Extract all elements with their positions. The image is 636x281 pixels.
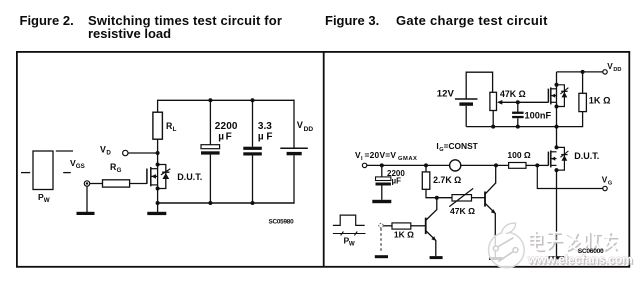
- 12V loop wires: [466, 72, 492, 126]
- bottom rail figure 3 top section: [466, 126, 582, 128]
- dot 100nF bottom: [516, 125, 520, 129]
- resistor 2.7K top wire: [425, 165, 427, 172]
- dot pot bottom: [491, 125, 495, 129]
- VG sense wire: [537, 165, 603, 188]
- resistor RL: [153, 112, 163, 139]
- svg-text:12V: 12V: [437, 88, 455, 99]
- label 2200 uF figure 3: [387, 169, 405, 185]
- variable resistor 47K box: [452, 195, 472, 201]
- drain node dot: [156, 163, 160, 167]
- watermark logo circle: [489, 223, 525, 268]
- capacitor 2200uF bottom plate: [201, 151, 220, 154]
- dot rail at 2200uF: [380, 163, 384, 167]
- svg-text:100 Ω: 100 Ω: [507, 150, 531, 160]
- svg-text:=CONST: =CONST: [444, 141, 479, 151]
- VI terminal: [362, 163, 366, 167]
- DUT diode slash: [560, 151, 568, 157]
- capacitor 2200uF branch top wire: [209, 100, 211, 144]
- ground below D.U.T. figure 2: [147, 212, 166, 215]
- battery VDD long plate: [280, 147, 308, 149]
- wire rail corner to RL top: [157, 100, 159, 112]
- svg-text:L: L: [173, 126, 177, 133]
- capacitor 3.3uF plates: [243, 147, 261, 156]
- VD label: [100, 144, 111, 156]
- label RL: [166, 121, 177, 133]
- resistor 1K top wire: [582, 72, 584, 93]
- upper MOSFET diode branch: [557, 85, 565, 107]
- svg-text:2.7K Ω: 2.7K Ω: [433, 175, 461, 185]
- Q1 collector: [485, 165, 496, 194]
- wire 1K to Q2 base: [411, 225, 426, 227]
- ground below 2200uF figure 3: [372, 200, 391, 203]
- VD terminal circle: [123, 150, 128, 155]
- label RG: [110, 162, 122, 174]
- dashed terminal circle: [379, 223, 383, 227]
- battery VDD bottom wire: [293, 155, 295, 203]
- battery 12V short plate: [459, 102, 473, 105]
- capacitor 3.3uF branch top wire: [252, 100, 254, 146]
- figure 3 title: [325, 13, 548, 28]
- label VDD figure 2: [297, 120, 314, 133]
- DUT source down wire: [556, 170, 558, 256]
- label VDD figure 3: [607, 62, 621, 73]
- label PW: [38, 192, 50, 204]
- battery 12V long plate: [455, 98, 478, 100]
- body diode slash: [161, 169, 170, 175]
- battery VDD short plate: [287, 152, 302, 155]
- current source IG circle: [450, 160, 461, 171]
- svg-text:W: W: [349, 240, 355, 247]
- resistor 100 ohm box: [509, 163, 526, 169]
- label PW figure 3: [344, 235, 355, 247]
- pot bottom wire: [492, 111, 494, 127]
- svg-text:Figure 2.: Figure 2.: [20, 13, 74, 28]
- wire RL bottom through MOSFET to ground: [157, 139, 159, 212]
- divider between figure 2 and figure 3: [323, 52, 325, 267]
- transistor Q2 base bar: [425, 218, 427, 235]
- svg-text:µ F: µ F: [258, 132, 273, 143]
- VG terminal: [603, 186, 607, 190]
- pulse symbol figure 3: [333, 215, 365, 225]
- svg-text:2200: 2200: [215, 121, 238, 132]
- svg-text:GMAX: GMAX: [398, 156, 417, 162]
- ground left of figure 2: [77, 186, 95, 215]
- svg-text:GS: GS: [76, 163, 85, 170]
- svg-text:Figure 3.: Figure 3.: [325, 13, 379, 28]
- main vertical upper MOSFET to DUT: [556, 72, 558, 147]
- svg-text:SC06000: SC06000: [578, 248, 604, 255]
- label VGS: [70, 158, 85, 170]
- capacitor 2200uF top plate: [201, 145, 220, 149]
- wire dashed terminal to 1K: [383, 225, 392, 227]
- node VD junction: [156, 151, 160, 155]
- battery VDD top wire: [293, 100, 295, 148]
- DUT source dot: [555, 168, 559, 172]
- body diode triangle: [162, 173, 169, 179]
- DUT diode triangle: [562, 155, 568, 160]
- svg-text:100nF: 100nF: [525, 110, 552, 120]
- Q2 collector: [426, 198, 437, 221]
- svg-text:47K Ω: 47K Ω: [450, 206, 475, 216]
- svg-text:µF: µF: [392, 176, 402, 185]
- upper MOSFET driver: [548, 87, 556, 104]
- dot main vertical at bottom rail: [555, 125, 559, 129]
- upper MOSFET source dot: [555, 105, 559, 109]
- dot wiper-100nF junction: [516, 100, 520, 104]
- bottom node dot: [156, 201, 160, 205]
- upper MOSFET drain dot: [555, 83, 559, 87]
- pulse width measure line: [333, 232, 366, 236]
- wire 47K to Q1 base: [472, 197, 486, 199]
- svg-text:D.U.T.: D.U.T.: [177, 172, 202, 182]
- svg-text:W: W: [44, 197, 50, 204]
- Q2 emitter arrow: [431, 236, 436, 241]
- source node dot: [156, 187, 160, 191]
- wire 100ohm to gate: [526, 164, 537, 166]
- upper MOSFET diode slash: [560, 88, 568, 94]
- body diode cathode bar: [162, 171, 169, 173]
- label VI=20V=VGMAX: [355, 150, 417, 162]
- transistor Q1 base bar: [484, 192, 486, 207]
- svg-text:D: D: [106, 149, 111, 156]
- D.U.T. MOSFET figure 3: [548, 150, 556, 167]
- top rail figure 2: [157, 99, 294, 101]
- dot rail at 2.7K: [424, 163, 428, 167]
- capacitor 3.3uF bottom wire: [252, 156, 254, 204]
- frame box around both figures: [17, 52, 629, 267]
- top rail figure 3: [557, 71, 604, 73]
- capacitor 2200uF figure 3 bottom plate: [376, 183, 391, 186]
- svg-text:SC05980: SC05980: [269, 219, 295, 226]
- label IG=CONST: [436, 141, 478, 153]
- Q1 emitter arrow: [491, 209, 496, 214]
- figure 2 title: [20, 13, 283, 41]
- label 2200 uF: [215, 121, 238, 143]
- svg-text:resistive load: resistive load: [88, 26, 171, 41]
- capacitor 100nF wires: [517, 102, 519, 126]
- upper MOSFET diode triangle: [562, 92, 568, 97]
- capacitor 2200uF figure 3 bottom wire: [381, 186, 383, 200]
- svg-text:Gate charge test circuit: Gate charge test circuit: [396, 13, 548, 28]
- top rail dot at 2200uF: [208, 98, 212, 102]
- rail IG to 100ohm: [461, 164, 509, 166]
- wire RG to gate: [130, 183, 147, 185]
- capacitor 2200uF figure 3 top wire: [381, 165, 383, 177]
- svg-text:3.3: 3.3: [258, 121, 272, 132]
- wiper wire to gate: [502, 101, 549, 103]
- dashed wire down: [380, 228, 382, 253]
- upper MOSFET body arrow: [551, 94, 555, 98]
- DUT diode cathode bar: [561, 154, 567, 156]
- variable resistor 47K slash: [449, 188, 473, 206]
- ground below DUT figure 3: [549, 256, 565, 259]
- input rail figure 3: [367, 164, 450, 166]
- svg-text:µF: µF: [218, 132, 233, 143]
- resistor 2.7K bottom wire: [426, 189, 452, 197]
- ground below Q1: [489, 257, 502, 260]
- MOSFET D.U.T. figure 2: [147, 167, 158, 186]
- svg-text:V: V: [607, 62, 613, 71]
- gate junction dot: [535, 163, 539, 167]
- bottom rail dot at 3.3uF: [251, 201, 255, 205]
- svg-text:47K Ω: 47K Ω: [500, 89, 526, 99]
- bottom rail dot at 2200uF: [208, 201, 212, 205]
- svg-text:G: G: [117, 167, 122, 174]
- DUT body arrow: [551, 157, 555, 161]
- dot Q2 collector junction: [435, 196, 439, 200]
- resistor 1K bottom wire: [582, 112, 584, 128]
- VDD terminal figure 3: [603, 70, 607, 74]
- ground below dashed wire: [375, 255, 388, 258]
- resistor 1K figure 3 box: [392, 223, 411, 229]
- ground below Q2: [430, 256, 443, 259]
- capacitor 2200uF figure 3 top plate: [376, 177, 391, 181]
- svg-text:1K Ω: 1K Ω: [589, 96, 611, 106]
- capacitor 100nF plates: [512, 112, 524, 119]
- upper MOSFET diode cathode bar: [561, 90, 567, 92]
- svg-text:I: I: [361, 156, 363, 162]
- MOSFET body arrow: [151, 174, 156, 179]
- watermark www.elecfans.com: [527, 253, 634, 268]
- DUT drain dot: [555, 145, 559, 149]
- svg-text:D.U.T.: D.U.T.: [574, 151, 599, 161]
- dot top rail at 1K: [581, 70, 585, 74]
- Q1 emitter: [485, 203, 495, 257]
- body diode branch: [158, 165, 166, 189]
- gate lead DUT: [537, 164, 548, 166]
- svg-text:1K Ω: 1K Ω: [394, 230, 414, 240]
- label 3.3 uF: [258, 121, 273, 143]
- svg-text:G: G: [608, 181, 612, 187]
- svg-text:=20V=V: =20V=V: [365, 150, 397, 160]
- resistor 2.7K box: [422, 172, 430, 189]
- svg-text:V: V: [100, 144, 106, 154]
- watermark chinese characters: [530, 231, 618, 252]
- dot rail at Q1 collector: [494, 163, 498, 167]
- resistor RG: [103, 180, 130, 187]
- wire VD to drain node: [128, 152, 157, 154]
- wire terminal to RG: [90, 183, 103, 185]
- label VG: [602, 176, 612, 187]
- potentiometer wiper arrow: [497, 100, 502, 105]
- svg-text:DD: DD: [304, 126, 314, 133]
- pulse source symbol VGS: [21, 151, 73, 190]
- potentiometer 47K box: [490, 92, 497, 110]
- capacitor 2200uF bottom wire: [209, 155, 211, 203]
- bottom rail figure 2: [157, 202, 294, 204]
- Q2 emitter: [426, 231, 436, 257]
- svg-text:DD: DD: [613, 67, 621, 73]
- top rail dot at 3.3uF: [251, 98, 255, 102]
- DUT diode branch: [557, 147, 565, 170]
- input terminal circle: [84, 181, 89, 186]
- resistor 1K box: [579, 93, 587, 111]
- svg-text:V: V: [602, 176, 608, 185]
